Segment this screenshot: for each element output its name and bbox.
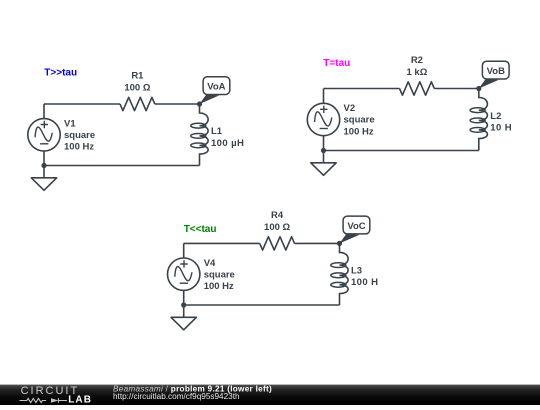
svg-text:100 Ω: 100 Ω bbox=[124, 82, 150, 93]
svg-text:V1: V1 bbox=[64, 118, 76, 129]
svg-text:R1: R1 bbox=[131, 71, 144, 82]
svg-text:square: square bbox=[204, 269, 235, 280]
svg-text:100 H: 100 H bbox=[351, 277, 378, 288]
svg-text:R4: R4 bbox=[271, 210, 284, 221]
svg-text:L1: L1 bbox=[211, 126, 223, 137]
svg-text:V2: V2 bbox=[344, 103, 356, 114]
svg-text:100 µH: 100 µH bbox=[211, 138, 244, 149]
svg-text:V4: V4 bbox=[204, 258, 216, 269]
svg-text:VoA: VoA bbox=[207, 82, 225, 93]
svg-text:VoB: VoB bbox=[487, 66, 505, 77]
svg-text:VoC: VoC bbox=[347, 221, 365, 232]
svg-text:T>>tau: T>>tau bbox=[44, 68, 77, 79]
svg-text:http://circuitlab.com/cf9q95s9: http://circuitlab.com/cf9q95s9423th bbox=[113, 392, 240, 401]
svg-text:square: square bbox=[344, 115, 375, 126]
svg-text:L3: L3 bbox=[351, 266, 362, 277]
svg-text:T<<tau: T<<tau bbox=[184, 224, 217, 235]
svg-text:100 Hz: 100 Hz bbox=[204, 281, 234, 292]
svg-text:square: square bbox=[64, 130, 95, 141]
svg-text:T=tau: T=tau bbox=[323, 58, 350, 69]
svg-text:100 Hz: 100 Hz bbox=[64, 142, 94, 153]
svg-text:10 H: 10 H bbox=[490, 123, 512, 134]
svg-text:100 Hz: 100 Hz bbox=[344, 126, 374, 137]
svg-text:LAB: LAB bbox=[68, 395, 92, 405]
svg-text:100 Ω: 100 Ω bbox=[264, 222, 290, 233]
svg-text:1 kΩ: 1 kΩ bbox=[406, 67, 427, 78]
svg-text:R2: R2 bbox=[411, 55, 423, 66]
svg-text:L2: L2 bbox=[490, 111, 501, 122]
